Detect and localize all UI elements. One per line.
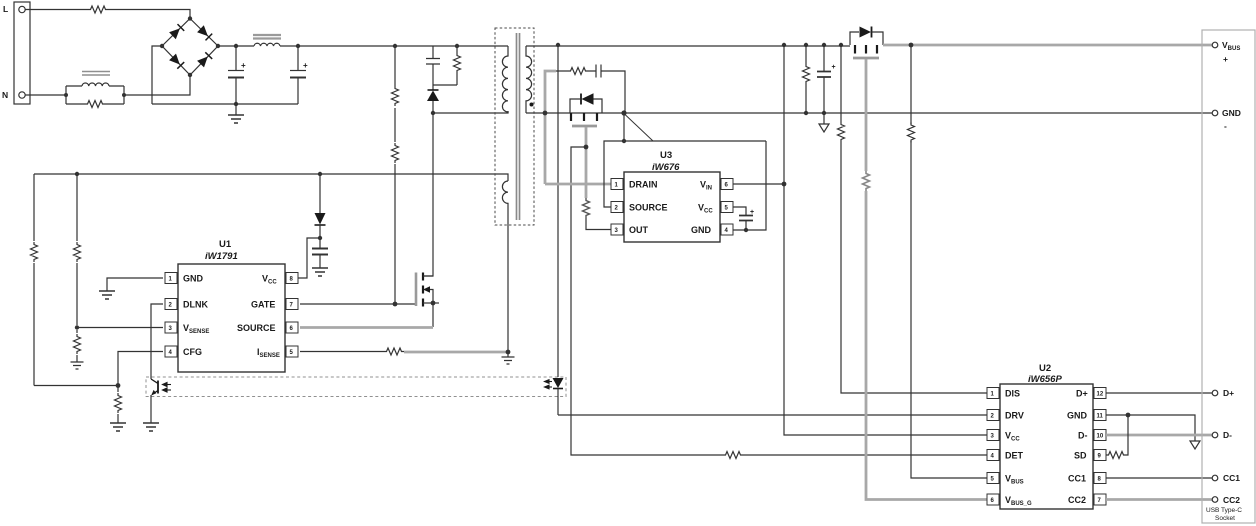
U2 pin 10: [1094, 430, 1106, 441]
VIN/VCC sense wire to U2 pin3: [784, 45, 987, 435]
U2 pin 6: [987, 494, 999, 505]
U1 pin 4: [165, 346, 177, 357]
wire gate resistor to OUT pin: [586, 218, 612, 230]
junction bridge top: [188, 16, 192, 20]
junction switch node: [431, 111, 435, 115]
U2 pin 11: [1094, 410, 1106, 421]
U2 pin 2: [987, 410, 999, 421]
terminal D+: [1212, 390, 1218, 396]
optocoupler LED D3: [553, 378, 564, 415]
terminal CC2: [1212, 497, 1218, 503]
VBUS sense wire to U2 pin5: [911, 45, 987, 478]
wire aux winding return: [507, 204, 509, 352]
transformer T1 outline: [495, 28, 534, 225]
opto LED light arrows: [545, 380, 553, 389]
DET series resistor R11: [723, 452, 743, 459]
output filter resistor R12: [805, 45, 807, 113]
junction VCC cap to GND: [744, 228, 748, 232]
wire SD resistor to GND: [1126, 415, 1128, 455]
wire rectified rail: [218, 45, 508, 47]
secondary VBUS rail (transformer to load switch): [526, 45, 850, 47]
junction R top: [804, 43, 808, 47]
junction source return: [622, 139, 626, 143]
wire DET tap to resistor: [571, 147, 723, 455]
inductor core: [253, 35, 281, 39]
U1 pin 6: [286, 322, 298, 333]
svg-text:CC2: CC2: [1068, 495, 1086, 505]
wire ISENSE gray to aux return: [404, 351, 508, 354]
wire resistor to DET pin: [743, 454, 987, 456]
U1 pin 8: [286, 273, 298, 284]
snubber resistor R3: [433, 46, 457, 85]
gate resistor R14: [863, 171, 870, 191]
optocoupler phototransistor Q2: [151, 379, 158, 423]
U3 pin 3: [611, 224, 623, 235]
terminal VBUS: [1212, 42, 1218, 48]
secondary return line: [526, 112, 1213, 114]
transformer auxiliary winding: [502, 181, 508, 204]
junction VIN rail: [782, 43, 786, 47]
VBUS sense resistor R15: [908, 123, 915, 143]
wire ISENSE: [300, 351, 384, 353]
junction GND-R tap: [804, 111, 808, 115]
ground earth CFG: [110, 423, 126, 431]
choke core: [82, 72, 110, 76]
transformer primary winding: [502, 46, 508, 113]
U2 body: [1000, 384, 1093, 509]
junction C2 top: [296, 44, 300, 48]
U3 VIN wire: [732, 183, 784, 185]
svg-text:DRV: DRV: [1005, 411, 1024, 421]
wire DLNK to opto collector: [151, 304, 163, 379]
svg-text:CC2: CC2: [1223, 495, 1240, 505]
wire CC1 to socket: [1106, 477, 1212, 479]
U2 pin 5: [987, 473, 999, 484]
ground earth VCC: [312, 268, 328, 276]
VCC rectifier diode D2: [315, 174, 326, 238]
U1 pin 1: [165, 273, 177, 284]
junction aux-divider: [75, 172, 79, 176]
U3 DRAIN gray wire: [545, 183, 612, 186]
filter inductor L2: [254, 43, 280, 46]
wire L to fuse: [25, 9, 88, 11]
junction source node: [621, 110, 626, 115]
U1 pin 2: [165, 299, 177, 310]
bridge diode top-right: [197, 25, 212, 40]
svg-text:SOURCE: SOURCE: [629, 203, 668, 213]
DIS pull resistor R13: [841, 45, 987, 393]
svg-text:D-: D-: [1078, 431, 1088, 441]
ground earth U1: [99, 291, 115, 299]
startup resistor chain from rail to gate node: [394, 46, 396, 304]
secondary phase dot: [530, 103, 534, 107]
terminal CC1: [1212, 475, 1218, 481]
U1 pin 3: [165, 322, 177, 333]
bridge diode bottom-right: [197, 52, 212, 67]
svg-text:GND: GND: [1222, 108, 1241, 118]
ground triangle secondary: [823, 113, 825, 124]
junction aux return: [506, 350, 511, 355]
wire U1 GND pin to ground: [107, 278, 163, 291]
CFG network resistor R6 (left leg): [33, 174, 35, 386]
svg-text:CFG: CFG: [183, 347, 202, 357]
junction bridge bottom: [188, 73, 192, 77]
U2 pin 1: [987, 388, 999, 399]
junction vsense tap: [75, 325, 79, 329]
wire SOURCE gray: [300, 326, 433, 329]
sense divider upper resistor R4: [76, 174, 78, 325]
ground earth divider: [71, 362, 84, 369]
wire fuse to bridge top: [108, 10, 190, 19]
clamp diode D1: [427, 85, 439, 113]
junction choke left: [64, 93, 68, 97]
U1 controller body: [178, 264, 285, 372]
junction choke right: [122, 93, 126, 97]
ISENSE resistor R8: [384, 348, 404, 355]
primary MOSFET Q1: [416, 273, 439, 328]
wire GATE to FET: [300, 303, 416, 305]
svg-text:+: +: [303, 61, 308, 70]
svg-text:L: L: [3, 4, 8, 14]
svg-text:U3: U3: [660, 150, 672, 161]
junction aux-vcc diode: [318, 172, 322, 176]
svg-text:GATE: GATE: [251, 300, 275, 310]
pointer line FET to U3: [625, 115, 653, 142]
wire bridge negative to bottom rail: [152, 46, 162, 104]
VBUS gray rail to socket: [883, 44, 1213, 47]
wire switch node to primary winding: [433, 111, 508, 113]
junction VCC node: [318, 236, 322, 240]
AC input terminal block: [14, 2, 30, 104]
wire choke to bridge bottom: [124, 75, 190, 95]
junction VBUS sense: [909, 43, 914, 48]
U3 body: [624, 172, 720, 242]
transformer secondary winding: [526, 46, 532, 113]
junction VIN tap: [782, 182, 787, 187]
wire D+ to socket: [1106, 392, 1212, 394]
svg-text:11: 11: [1097, 414, 1104, 420]
U2 pin 7: [1094, 494, 1106, 505]
auxiliary winding rail: [34, 174, 508, 181]
sync gate gray wire: [585, 127, 588, 198]
svg-text:+: +: [832, 64, 836, 71]
snubber capacitor C3: [426, 46, 440, 85]
U2 pin 4: [987, 450, 999, 461]
wire CFG bottom: [34, 385, 118, 387]
svg-text:USB Type-C: USB Type-C: [1206, 507, 1242, 514]
opto light arrows: [163, 383, 172, 393]
svg-text:+: +: [241, 61, 246, 70]
svg-text:CC1: CC1: [1068, 474, 1086, 484]
VCC capacitor C4: [312, 238, 328, 268]
svg-text:DLNK: DLNK: [183, 300, 208, 310]
U3 pin 5: [721, 202, 733, 213]
U3 GND wire: [732, 141, 766, 230]
USB Type-C socket outline: [1202, 30, 1255, 523]
choke damping resistor: [85, 101, 105, 108]
junction LED feed: [556, 43, 560, 47]
bridge diode top-left: [169, 24, 184, 39]
U3 pin 2: [611, 202, 623, 213]
junction C1 top: [234, 44, 238, 48]
U2 pin 12: [1094, 388, 1106, 399]
wire U2 GND: [1106, 415, 1195, 441]
ground earth aux: [507, 352, 509, 357]
junction GND-SD: [1126, 413, 1131, 418]
junction gate-DET tap: [584, 145, 589, 150]
transformer core: [517, 33, 520, 220]
sync rectifier MOSFET Q3: [570, 93, 602, 126]
output capacitor C7: [817, 45, 831, 113]
terminal D-: [1212, 432, 1218, 438]
bridge rectifier BR1: [162, 19, 218, 76]
U3 pin 6: [721, 179, 733, 190]
wire CC2 gray to socket: [1106, 498, 1212, 501]
ground earth below bridge: [235, 104, 237, 115]
junction startup top: [393, 44, 397, 48]
svg-text:10: 10: [1097, 434, 1104, 440]
svg-text:D-: D-: [1223, 430, 1232, 440]
junction bridge right: [216, 44, 220, 48]
bulk capacitor C2: [290, 46, 306, 104]
load switch gate gray wire: [865, 59, 868, 171]
bridge diode bottom-left: [169, 54, 184, 69]
junction bottom rail: [234, 102, 238, 106]
junction gate-startup: [393, 302, 398, 307]
svg-text:iW656P: iW656P: [1028, 374, 1062, 385]
svg-text:N: N: [2, 90, 8, 100]
U2 pin 3: [987, 430, 999, 441]
junction DIS rail: [839, 43, 843, 47]
gate gray wire to U2 pin6: [866, 191, 987, 500]
common-mode choke L1: [66, 83, 124, 104]
svg-text:Socket: Socket: [1215, 515, 1235, 522]
svg-text:U2: U2: [1039, 363, 1051, 374]
sync gate resistor R10: [583, 198, 590, 218]
U1 pin 7: [286, 299, 298, 310]
sync snubber capacitor C5: [596, 65, 625, 114]
U2 pin 8: [1094, 473, 1106, 484]
optocoupler package outline: [146, 377, 566, 397]
svg-text:DET: DET: [1005, 451, 1024, 461]
terminal GND: [1212, 110, 1218, 116]
startup resistor R2: [392, 143, 399, 163]
fuse resistor F1: [88, 6, 108, 13]
startup resistor R1: [392, 86, 399, 106]
junction CFG node: [116, 383, 121, 388]
wire N to choke: [25, 94, 66, 96]
svg-text:SD: SD: [1074, 451, 1087, 461]
wire CFG node to pin: [118, 352, 163, 386]
svg-text:GND: GND: [691, 225, 712, 235]
svg-text:OUT: OUT: [629, 225, 649, 235]
svg-text:12: 12: [1097, 392, 1104, 398]
svg-text:-: -: [1224, 121, 1227, 131]
junction snubber top: [455, 44, 459, 48]
svg-text:iW1791: iW1791: [205, 251, 238, 262]
wire vsense: [77, 327, 163, 329]
wire DRV (LED cathode to U2 pin2): [558, 414, 987, 416]
bulk capacitor C1: [228, 46, 244, 104]
ground triangle U2: [1190, 441, 1200, 449]
svg-text:iW676: iW676: [652, 162, 680, 173]
svg-text:+: +: [1223, 54, 1228, 64]
U3 pin 1: [611, 179, 623, 190]
VCC supply wire from pin 8: [298, 238, 320, 278]
wire primary bottom rail: [152, 103, 298, 105]
junction GND-C tap: [822, 111, 826, 115]
U3 VCC capacitor C6: [732, 207, 753, 230]
opto LED feed wire: [557, 45, 559, 377]
svg-text:D+: D+: [1076, 389, 1088, 399]
svg-text:DRAIN: DRAIN: [629, 180, 658, 190]
load switch MOSFET Q4: [850, 27, 883, 59]
junction C top: [822, 43, 826, 47]
svg-text:D+: D+: [1223, 388, 1234, 398]
svg-text:U1: U1: [219, 239, 232, 250]
U1 pin 5: [286, 346, 298, 357]
svg-text:GND: GND: [183, 274, 204, 284]
svg-text:CC1: CC1: [1223, 473, 1240, 483]
sense divider lower resistor R5: [76, 330, 78, 362]
U3 pin 4: [721, 224, 733, 235]
U2 pin 9: [1094, 450, 1106, 461]
svg-text:GND: GND: [1067, 411, 1088, 421]
junction drain node: [543, 111, 548, 116]
junction bridge left: [160, 44, 164, 48]
svg-text:DIS: DIS: [1005, 389, 1020, 399]
U3 SOURCE wire: [604, 141, 766, 207]
svg-text:+: +: [750, 209, 754, 216]
CFG resistor R7: [117, 386, 119, 424]
wire switch node to FET drain: [423, 113, 433, 276]
wire source node stub: [623, 113, 625, 141]
svg-text:SOURCE: SOURCE: [237, 323, 276, 333]
sync snubber resistor R9: [556, 70, 596, 72]
SD resistor R16: [1106, 452, 1126, 459]
sync FET snubber gray leg: [545, 71, 556, 184]
ground earth opto emitter: [143, 423, 159, 431]
wire D- gray to socket: [1106, 434, 1212, 437]
